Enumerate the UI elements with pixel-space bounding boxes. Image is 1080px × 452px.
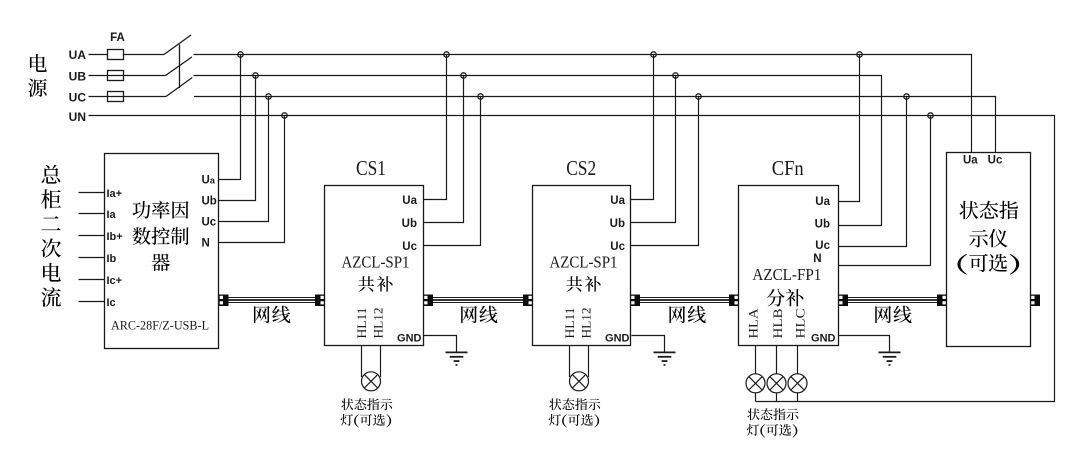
svg-text:GND: GND <box>811 333 836 345</box>
svg-text:GND: GND <box>397 333 422 345</box>
switch blade UC <box>166 78 192 97</box>
CS2 lamp caption 灯(可选) <box>549 414 599 428</box>
svg-text:Ia+: Ia+ <box>107 188 123 200</box>
svg-text:HL12: HL12 <box>370 308 385 339</box>
svg-text:AZCL-SP1: AZCL-SP1 <box>342 253 410 272</box>
CFn lamp caption 灯(可选) <box>747 424 797 438</box>
CS1 label 共补 <box>358 276 392 292</box>
pin Ia+ stub wire <box>79 192 105 194</box>
svg-text:Ua: Ua <box>202 175 216 187</box>
CFn lamp caption 状态指示 <box>747 408 798 420</box>
label 总柜二次电流 (cabinet secondary current) <box>41 165 61 307</box>
wire UN bus to lamp return bus <box>89 116 1055 402</box>
wire tap UB to CS2 Ub <box>631 76 676 223</box>
svg-text:Ib+: Ib+ <box>107 231 123 243</box>
pin Ia stub wire <box>79 213 105 215</box>
wire tap UA to CS1 Ua <box>424 55 447 200</box>
CS1 lamp lead right <box>380 346 382 378</box>
junction UA-CS1 <box>444 52 449 57</box>
CS2 lamp lead right <box>588 346 590 378</box>
fuse FA phase B <box>108 71 124 81</box>
CFn lamp 3 lead upper <box>797 346 799 374</box>
wire tap UN to controller N <box>219 116 285 243</box>
junction UC-controller <box>266 94 271 99</box>
network cable CS1-CS2 label 网线 <box>461 306 497 324</box>
wire tap UC to CFn Uc <box>839 97 907 247</box>
wire tap UA to CFn Ua <box>839 55 860 202</box>
pin Ib stub wire <box>79 257 105 259</box>
junction UN-CFn <box>928 113 933 118</box>
switch blade UB <box>166 57 193 76</box>
svg-text:N: N <box>202 238 210 250</box>
svg-text:FA: FA <box>110 32 125 44</box>
svg-text:Ua: Ua <box>963 155 978 167</box>
svg-text:Uc: Uc <box>402 241 417 253</box>
wire tap UA to controller Ua <box>219 55 241 180</box>
label 电源 (power source) <box>28 54 47 97</box>
CS2 label 共补 <box>566 276 600 292</box>
CS1 lamp caption 灯(可选) <box>341 414 391 428</box>
svg-text:HLC: HLC <box>792 309 807 339</box>
wire tap UA to CS2 Ua <box>631 55 654 200</box>
CS2 earth ground <box>654 352 676 365</box>
junction UB-CS2 <box>673 73 678 78</box>
CS1 GND wire to earth <box>424 336 457 352</box>
svg-text:Ua: Ua <box>815 196 830 208</box>
CS1 earth ground <box>446 352 468 365</box>
network cable CFn-indicator plug left <box>839 295 849 307</box>
CFn status lamp 1 <box>746 374 765 393</box>
svg-text:Ub: Ub <box>815 219 830 231</box>
module CS1 box <box>325 186 424 346</box>
wire tap UN to CFn N <box>839 116 931 266</box>
wire tap UC to CS2 Uc <box>631 97 699 246</box>
network cable CFn-indicator lines <box>848 298 937 303</box>
junction UA-CS2 <box>651 52 656 57</box>
CFn lamp 3 lead lower <box>797 393 799 402</box>
svg-text:Ic: Ic <box>107 297 116 309</box>
svg-text:UA: UA <box>69 48 87 62</box>
junction UB-CS1 <box>461 73 466 78</box>
svg-text:HLB: HLB <box>770 308 785 338</box>
network cable controller-CS1 plug right <box>315 295 325 307</box>
module CFn box <box>739 186 839 346</box>
indicator title 状态指示仪(可选) <box>957 201 1019 275</box>
CFn lamp 1 lead upper <box>755 346 757 374</box>
network cable CS2-CFn label 网线 <box>669 306 705 324</box>
svg-text:Ua: Ua <box>402 195 417 207</box>
network cable CS1-CS2 plug right <box>523 295 533 307</box>
pin Ic+ stub wire <box>79 279 105 281</box>
svg-text:HL12: HL12 <box>578 308 593 339</box>
status indicator box 状态指示仪 <box>947 153 1031 347</box>
wire UC label to switch <box>89 96 167 98</box>
svg-text:CS2: CS2 <box>566 156 596 180</box>
switch linkage bar <box>179 45 181 89</box>
wire UA label to fuse/switch <box>89 54 165 56</box>
CFn status lamp 3 <box>788 374 807 393</box>
network cable CS1-CS2 lines <box>433 298 523 303</box>
CS1 status lamp <box>362 372 381 391</box>
CS2 GND wire to earth <box>632 336 665 352</box>
network cable CS1-CS2 plug left <box>424 295 434 307</box>
svg-text:N: N <box>813 253 821 265</box>
svg-text:Ub: Ub <box>610 218 625 230</box>
junction UA-CFn <box>857 52 862 57</box>
CS2 lamp lead left <box>569 346 571 378</box>
junction UC-CFn <box>904 94 909 99</box>
svg-text:Ib: Ib <box>107 253 117 265</box>
junction UC-CS2 <box>696 94 701 99</box>
network cable CFn-indicator label 网线 <box>875 306 911 324</box>
fuse FA phase A <box>108 50 124 60</box>
pin Ib+ stub wire <box>79 235 105 237</box>
network cable controller-CS1 lines <box>229 298 316 303</box>
pin Ic stub wire <box>79 301 105 303</box>
CFn status lamp 2 <box>767 374 786 393</box>
CS2 lamp caption 状态指示 <box>549 398 600 410</box>
svg-text:Uc: Uc <box>815 240 830 252</box>
svg-text:UC: UC <box>69 91 87 105</box>
CFn lamp 2 lead upper <box>776 346 778 374</box>
CS1 lamp lead left <box>361 346 363 378</box>
svg-text:GND: GND <box>605 333 630 345</box>
wire UA bus to indicator Ua drop <box>194 55 972 153</box>
svg-text:HL11: HL11 <box>562 308 577 339</box>
junction UN-controller <box>282 113 287 118</box>
svg-text:Ia: Ia <box>107 209 117 221</box>
svg-text:Uc: Uc <box>988 155 1003 167</box>
junction UB-controller <box>253 73 258 78</box>
wire tap UC to controller Uc <box>219 97 269 222</box>
CFn label 分补 <box>767 289 804 307</box>
network port indicator right <box>1031 295 1041 307</box>
svg-text:Uc: Uc <box>202 217 217 229</box>
controller title 功率因数控制器 <box>132 201 188 271</box>
CFn lamp 2 lead lower <box>776 393 778 402</box>
svg-text:UN: UN <box>69 110 86 124</box>
wire UB label to switch <box>89 75 166 77</box>
wire tap UB to controller Ub <box>219 76 256 201</box>
svg-text:Ic+: Ic+ <box>107 275 123 287</box>
svg-text:Uc: Uc <box>610 241 625 253</box>
svg-text:HL11: HL11 <box>354 308 369 339</box>
network cable CS2-CFn plug left <box>631 295 641 307</box>
network cable CS2-CFn lines <box>640 298 729 303</box>
wire tap UB to CS1 Ub <box>424 76 464 223</box>
network cable controller-CS1 label 网线 <box>254 306 290 324</box>
svg-text:Ua: Ua <box>610 195 625 207</box>
svg-text:Ub: Ub <box>202 196 217 208</box>
wire UC bus to indicator Uc drop <box>194 97 996 153</box>
switch blade UA <box>164 35 191 55</box>
junction UA-controller <box>238 52 243 57</box>
svg-text:AZCL-FP1: AZCL-FP1 <box>752 265 821 284</box>
network cable CS2-CFn plug right <box>729 295 739 307</box>
CFn GND wire to earth <box>839 336 890 352</box>
svg-text:Ub: Ub <box>402 218 417 230</box>
CFn earth ground <box>879 352 901 365</box>
module CS2 box <box>533 186 631 346</box>
svg-text:AZCL-SP1: AZCL-SP1 <box>550 253 618 272</box>
svg-text:UB: UB <box>69 70 87 84</box>
svg-text:HLA: HLA <box>745 308 760 339</box>
fuse FA phase C <box>108 92 124 102</box>
svg-text:CS1: CS1 <box>356 156 386 180</box>
svg-text:ARC-28F/Z-USB-L: ARC-28F/Z-USB-L <box>111 317 209 332</box>
CS1 lamp caption 状态指示 <box>341 398 392 410</box>
CFn lamp 1 lead lower <box>755 393 757 402</box>
junction UC-CS1 <box>478 94 483 99</box>
wire UB bus to CFn Ub drop <box>194 76 882 226</box>
svg-text:CFn: CFn <box>772 156 804 180</box>
wire tap UC to CS1 Uc <box>424 97 481 246</box>
network cable CFn-indicator plug right <box>937 295 947 307</box>
network cable controller-CS1 plug left <box>219 295 229 307</box>
CS2 status lamp <box>570 372 589 391</box>
controller U1 box 功率因数控制器 <box>105 154 219 349</box>
